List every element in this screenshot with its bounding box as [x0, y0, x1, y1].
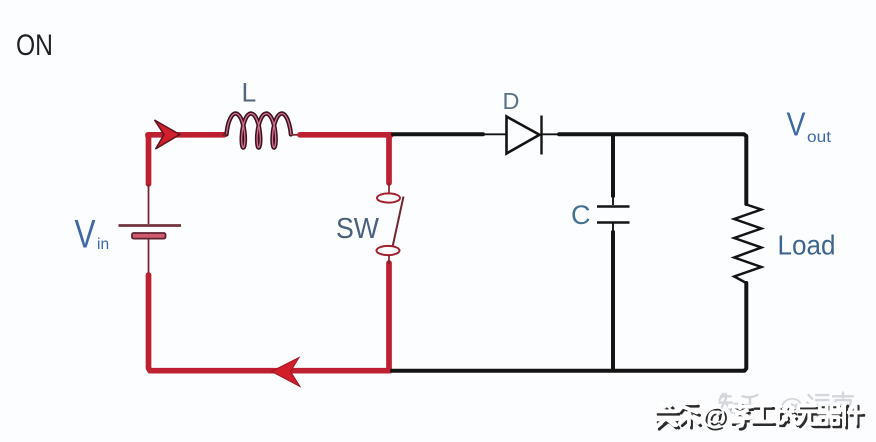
wire: diode thin lead left — [483, 133, 506, 135]
switch SW upper contact ellipse — [377, 193, 400, 202]
diode D triangle — [507, 117, 540, 154]
wire: top black from diode to top-right corner — [559, 134, 746, 204]
current arrow A2 (bottom, pointing left) — [272, 358, 301, 387]
wire: capacitor branch vertical bottom — [611, 232, 615, 369]
wire: SW vertical red top segment — [386, 135, 392, 183]
wire: inductor right thin tail + thick red to SW junction — [292, 134, 300, 136]
switch SW thin lead bottom — [388, 255, 390, 264]
wire: battery thin lead top — [148, 184, 150, 224]
switch SW lower contact ellipse — [377, 246, 400, 255]
switch SW blade — [393, 197, 404, 248]
inductor L coil pink core — [227, 114, 291, 148]
wire: capacitor thin lead bottom — [612, 223, 614, 233]
battery V1 long plate — [119, 224, 182, 227]
resistor Load zigzag — [734, 203, 761, 283]
wire: capacitor thin lead top — [612, 196, 614, 205]
watermark dark toutiao text — [658, 405, 864, 433]
svg-text:@: @ — [702, 402, 726, 430]
wire: top-left horizontal red (Vin corner to inductor) — [148, 135, 224, 136]
wire: capacitor branch vertical top — [611, 135, 615, 196]
wire: inductor left thin tail — [222, 134, 227, 136]
inductor L coil dark outline — [227, 114, 291, 148]
current arrow A1 (top, pointing right) — [155, 120, 180, 149]
switch SW thin lead top — [388, 183, 390, 193]
watermark white emboss copy — [656, 402, 862, 430]
wire: left vertical red upper segment — [146, 135, 152, 184]
wire: left vertical red lower segment — [149, 275, 391, 371]
wire: SW vertical red bottom segment — [386, 263, 392, 369]
capacitor C bottom plate — [597, 221, 630, 224]
diode D cathode bar — [540, 116, 542, 155]
wire: battery thin lead bottom — [148, 239, 150, 276]
wire: top black from SW junction to diode — [393, 132, 483, 136]
wire: load bottom vertical — [392, 283, 746, 371]
watermark gray zhihu text — [718, 393, 854, 424]
battery V1 short thick plate — [132, 233, 166, 239]
capacitor C top plate — [597, 205, 630, 208]
wire: diode thin lead right — [542, 133, 561, 135]
